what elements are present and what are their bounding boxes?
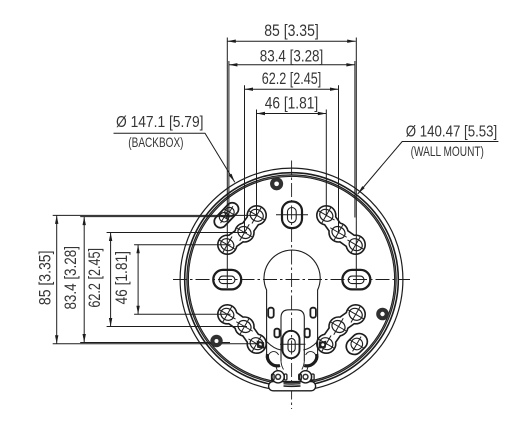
extension line 83.4 bottom [80,342,230,344]
arrowheads 62.2 horizontal [245,88,254,91]
neck right ear [310,308,316,318]
arrowheads 83.4 vertical [83,217,86,226]
backbox outer circle [180,168,403,391]
extension line 62.2 left [244,85,246,233]
screw TR trilobe 2 [326,220,352,246]
right leg crescent [304,354,317,366]
top-left tri-lobe slot [227,215,256,244]
extension line 85 top (vertical dim) [53,214,258,216]
neck left ear [268,308,274,318]
east obround hole [342,270,370,290]
bayonet wedge bottom-left [257,341,265,349]
extension line 85 left [226,38,228,289]
screw BR oval [345,332,368,355]
arrowheads 46 horizontal [257,112,266,115]
extension line 83.4 left [228,61,230,218]
extension line 46 right [325,110,327,217]
right arm to boss [307,365,309,372]
screw BL trilobe 1 [214,301,240,327]
screw peanut 2 [215,208,234,227]
vertical centerline [291,161,293,410]
screw BR trilobe 2 [326,314,352,340]
inner U channel [281,310,304,361]
svg-text:(WALL MOUNT): (WALL MOUNT) [411,143,484,159]
screw BR trilobe 3 [343,301,369,327]
screw peanut 1 [220,203,239,222]
screw BR trilobe 1 [313,331,339,357]
svg-text:83.4 [3.28]: 83.4 [3.28] [260,46,324,65]
bottom-left tri-lobe slot [227,314,256,343]
svg-text:85 [3.35]: 85 [3.35] [264,21,319,40]
svg-text:Ø 140.47 [5.53]: Ø 140.47 [5.53] [406,123,497,140]
extension line 83.4 right [354,61,356,218]
left leg crescent [267,354,280,366]
svg-text:46 [1.81]: 46 [1.81] [265,93,318,112]
screw TL trilobe 2 [232,220,258,246]
svg-text:(BACKBOX): (BACKBOX) [128,134,183,150]
screw TR trilobe 3 [343,232,369,258]
dimension line 85 horizontal [227,40,355,42]
arrowheads 62.2 vertical [109,233,112,242]
dimension line 62.2 horizontal [245,88,339,90]
svg-text:62.2 [2.45]: 62.2 [2.45] [262,69,322,88]
extension line 83.4 top [80,216,230,218]
extension line 62.2 top [107,232,247,234]
svg-text:83.4 [3.28]: 83.4 [3.28] [61,246,80,310]
screw BL trilobe 3 [244,331,270,357]
extension line 62.2 bottom [107,326,247,328]
leader arrow wall mount [358,186,365,194]
bottom tab [269,382,316,391]
screw head bottom-right ring [376,308,389,321]
svg-text:85 [3.35]: 85 [3.35] [36,251,55,306]
dimension line 85 vertical [56,215,58,343]
arrowheads 83.4 horizontal [229,63,238,66]
dimension line 46 vertical [137,245,139,315]
left arm to boss [276,365,278,372]
left leg cylinder [268,352,278,358]
svg-text:46 [1.81]: 46 [1.81] [112,251,131,304]
left leg inner line [267,342,281,351]
right boss [299,371,311,383]
extension line 46 bottom [134,313,230,315]
svg-text:62.2 [2.45]: 62.2 [2.45] [85,248,104,308]
extension line 46 left [256,110,258,217]
bottom-right oval slot [354,342,359,347]
left boss [272,371,284,383]
south obround hole [283,331,300,358]
arrowheads 85 horizontal [227,40,236,43]
screw BL trilobe 2 [232,314,258,340]
inner rim circle a [187,175,396,384]
dimension line 46 horizontal [257,113,327,115]
inner rim circle b [188,176,394,382]
inner rim band [188,176,396,384]
leader line wall mount label [358,142,499,195]
dimension line 83.4 vertical [83,217,85,343]
dimension line 62.2 vertical [110,233,112,327]
extension line 62.2 right [338,85,340,233]
screw TL trilobe 3 [214,232,240,258]
boss side tabs [272,374,275,380]
top-left peanut slot [221,209,233,222]
right leg cylinder [306,352,316,358]
arrowheads 85 vertical [55,215,58,224]
bayonet wedge bottom-right [319,341,327,349]
screw head top ring [270,177,283,190]
horizontal centerline [173,279,410,281]
leader line backbox label [114,133,235,182]
north obround hole [282,202,302,229]
leader arrow backbox [229,174,235,183]
svg-text:Ø 147.1 [5.79]: Ø 147.1 [5.79] [116,114,204,131]
screw head bottom-left ring [210,335,222,347]
dimension line 83.4 horizontal [229,64,355,66]
bottom-right tri-lobe slot [326,314,355,343]
U right tab [305,329,310,338]
screw TR trilobe 1 [313,202,339,228]
arrowheads 46 vertical [136,245,139,254]
wall mount circle [185,173,399,387]
keyhole circle and neck [264,250,320,364]
top-right tri-lobe slot [326,215,355,244]
extension line 85 bottom [53,343,258,345]
extension line 46 top [134,244,230,246]
screw TL trilobe 1 [244,202,270,228]
right leg inner line [303,342,317,351]
west obround hole [213,270,241,290]
U left tab [274,329,279,338]
extension line 85 right [355,38,357,289]
